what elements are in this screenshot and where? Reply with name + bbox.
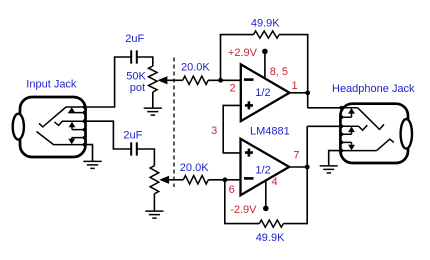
svg-text:49.9K: 49.9K xyxy=(256,232,285,244)
wire P1 wiper to R1 xyxy=(167,79,182,81)
svg-text:20.0K: 20.0K xyxy=(180,162,209,174)
wire P2 bottom to ground xyxy=(153,194,155,211)
wire left channel: jack tip to C1 xyxy=(86,57,132,107)
svg-text:2uF: 2uF xyxy=(123,129,142,141)
headphone jack tip arrow tail xyxy=(342,113,352,117)
svg-text:3: 3 xyxy=(211,125,217,137)
svg-text:LM4881: LM4881 xyxy=(250,126,290,138)
node -2.9V supply dot xyxy=(263,206,269,212)
wire R3 to U1B inverting input xyxy=(208,179,240,181)
svg-text:2uF: 2uF xyxy=(125,33,144,45)
headphone jack tip contact line xyxy=(342,107,358,109)
svg-text:1/2: 1/2 xyxy=(255,87,270,99)
potentiometer P1 wiper arrow xyxy=(158,76,168,84)
wire headphone jack sleeve to ground xyxy=(329,151,341,166)
wire bottom output to headphone jack ring xyxy=(307,125,342,127)
input jack tip contact arrow xyxy=(68,107,75,113)
svg-text:49.9K: 49.9K xyxy=(251,18,280,30)
headphone jack sleeve contact line xyxy=(342,150,377,152)
svg-text:1/2: 1/2 xyxy=(255,164,270,176)
wire R4 to bottom output node xyxy=(283,126,307,223)
headphone jack tip switch lever xyxy=(358,108,384,130)
svg-text:50K: 50K xyxy=(126,71,146,83)
potentiometer P2 50K element xyxy=(150,166,159,194)
node A junction dot xyxy=(218,78,223,83)
svg-text:+2.9V: +2.9V xyxy=(228,47,258,59)
potentiometer P1 50K element xyxy=(149,66,158,92)
svg-text:6: 6 xyxy=(229,184,235,196)
headphone jack edge pins xyxy=(339,106,343,153)
wire C2 to pot P2 xyxy=(137,149,155,166)
input jack ring contact line xyxy=(62,120,84,122)
svg-text:8, 5: 8, 5 xyxy=(270,66,288,78)
op-amp U1B plus sign xyxy=(245,149,253,157)
op-amp U1A minus sign xyxy=(244,78,254,81)
input jack tip switch lever xyxy=(39,107,66,127)
ground input jack xyxy=(83,161,101,168)
headphone jack J2 body xyxy=(340,104,408,163)
headphone jack ring contact arrow xyxy=(348,127,355,133)
op-amp U1B minus sign xyxy=(244,177,254,180)
wire pin 3 bracket joining non-inverting inputs xyxy=(223,105,241,152)
svg-text:2: 2 xyxy=(230,82,236,94)
svg-text:pot: pot xyxy=(130,82,145,94)
svg-text:4: 4 xyxy=(272,176,278,188)
svg-text:Headphone Jack: Headphone Jack xyxy=(332,83,415,95)
headphone jack ring switch check xyxy=(359,125,368,130)
input jack ring switch check xyxy=(54,121,62,126)
headphone jack sleeve arrow tail xyxy=(342,142,352,144)
svg-text:-2.9V: -2.9V xyxy=(230,204,257,216)
op-amp U1B triangle xyxy=(241,139,290,195)
wire input jack sleeve to ground xyxy=(85,145,93,161)
wire top output to headphone jack tip xyxy=(308,107,342,109)
wire right channel: jack ring to C2 xyxy=(86,121,132,149)
resistor R4 49.9K bottom feedback xyxy=(259,220,283,227)
node top output dot xyxy=(305,90,310,95)
wire P1 bottom to ground xyxy=(152,92,154,108)
capacitor C1 2uF plates xyxy=(131,50,137,63)
headphone jack ring contact line xyxy=(342,125,359,127)
svg-text:Input Jack: Input Jack xyxy=(26,79,77,91)
wire R2 to top output node xyxy=(279,35,308,108)
headphone jack ring arrow tail xyxy=(342,132,352,134)
input jack tip contact line xyxy=(66,106,85,108)
ground headphone jack xyxy=(320,166,338,173)
wire +2.9V to U1A pins 8,5 xyxy=(264,51,266,78)
headphone jack sleeve arrow xyxy=(348,145,355,151)
input jack edge pins xyxy=(83,105,87,146)
resistor R3 20.0K xyxy=(183,176,208,184)
svg-text:7: 7 xyxy=(293,150,299,162)
op-amp U1A triangle xyxy=(241,64,290,121)
input jack ring contact arrow xyxy=(69,122,76,127)
capacitor C2 2uF plates xyxy=(131,142,137,155)
wire C1 to pot P1 top xyxy=(137,57,153,66)
resistor R2 49.9K top feedback xyxy=(254,31,280,38)
node +2.9V supply dot xyxy=(262,49,268,55)
node bottom output dot xyxy=(305,165,310,170)
headphone jack J2 barrel xyxy=(401,119,412,149)
potentiometer P2 wiper arrow xyxy=(159,176,169,184)
input jack J1 barrel xyxy=(13,114,24,140)
wire feedback U1B: node B down and across to R4 xyxy=(225,180,259,224)
wire feedback U1A: node A up and across to R2 xyxy=(221,35,254,81)
input jack sleeve lever xyxy=(37,132,85,145)
wire R1 to U1A inverting input xyxy=(208,79,241,81)
input jack tip arrow tail xyxy=(68,112,84,114)
wire -2.9V to U1B pin 4 xyxy=(265,181,267,209)
resistor R1 20.0K xyxy=(183,76,209,84)
input jack sleeve arrow xyxy=(68,139,75,145)
svg-text:20.0K: 20.0K xyxy=(181,62,210,74)
input jack J1 body xyxy=(20,97,86,157)
wire P2 wiper to R3 xyxy=(169,179,183,181)
op-amp U1A plus sign xyxy=(245,101,253,109)
input jack ring arrow tail xyxy=(72,127,85,130)
wire U1A output xyxy=(290,92,308,94)
headphone jack sleeve lever xyxy=(377,139,394,150)
wire U1B output xyxy=(289,166,307,168)
dashed gang line pots xyxy=(173,58,175,188)
ground P1 xyxy=(144,108,162,115)
node B junction dot xyxy=(223,177,228,182)
headphone jack tip contact arrow xyxy=(348,108,355,114)
input jack sleeve arrow tail xyxy=(72,138,85,140)
ground P2 xyxy=(145,211,163,218)
svg-text:1: 1 xyxy=(292,80,298,92)
